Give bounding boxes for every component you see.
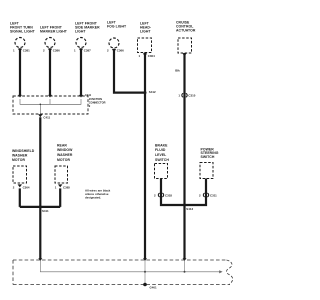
- pin 2 C364: [13, 184, 30, 189]
- wire: brake fluid level switch down and right to S413: [161, 179, 185, 206]
- svg-text:JUNCTION: JUNCTION: [89, 97, 102, 101]
- pin 1 C381: [13, 48, 30, 52]
- junction connector label: [85, 93, 106, 108]
- svg-text:S413: S413: [186, 207, 193, 211]
- svg-text:C386: C386: [53, 48, 60, 52]
- svg-text:REAR: REAR: [57, 143, 67, 147]
- svg-text:C366: C366: [117, 49, 124, 53]
- svg-text:ACTUATOR: ACTUATOR: [176, 28, 196, 32]
- connector circle C387 (left front side marker light): [76, 38, 86, 48]
- svg-text:LEVEL: LEVEL: [155, 153, 166, 157]
- svg-text:C311: C311: [210, 193, 217, 197]
- component box: windshield washer motor: [13, 166, 27, 183]
- body ground fork: headlight wire: [143, 258, 147, 261]
- junction dot: headlight ground at bus: [144, 271, 146, 273]
- pin fork: cruise control actuator: [182, 53, 186, 56]
- svg-text:S411: S411: [42, 209, 49, 213]
- body outline dashed top: [13, 259, 227, 261]
- pin 1 C365: [55, 184, 71, 189]
- wire: junction connector down to splice S411: [39, 117, 41, 258]
- junction dot: cruise ground at bus: [184, 271, 186, 273]
- note: all wires are black: [85, 188, 111, 199]
- label: left front marker light: [40, 25, 68, 33]
- svg-text:LIGHT: LIGHT: [75, 29, 86, 33]
- label: power steering switch: [201, 148, 219, 159]
- body outline dashed bottom: [13, 284, 230, 286]
- wire: turn signal light down to junction connector: [19, 48, 21, 96]
- wire: headlight down to ground bus: [144, 53, 146, 259]
- label: brake fluid level switch: [155, 143, 169, 161]
- svg-text:C387: C387: [84, 48, 91, 52]
- component box: left headlight: [138, 38, 152, 53]
- svg-text:C364: C364: [23, 186, 30, 190]
- label: windshield washer motor: [12, 149, 35, 162]
- svg-text:FLUID: FLUID: [155, 148, 166, 152]
- component box: brake fluid level switch: [155, 164, 168, 179]
- wire: cruise control actuator down: [183, 53, 185, 259]
- wire: fog light down and right to splice S412: [114, 49, 145, 93]
- wire: marker light down to junction connector: [49, 48, 51, 96]
- component box: cruise control actuator: [178, 38, 192, 53]
- svg-text:G401: G401: [150, 286, 157, 290]
- svg-text:BRAKE: BRAKE: [155, 143, 168, 147]
- junction connector C411 dashed box: [13, 96, 88, 114]
- pin 2 C386: [43, 48, 60, 52]
- label: rear window washer motor: [57, 143, 73, 161]
- component box: power steering switch: [200, 163, 213, 179]
- label: left front side marker light: [75, 21, 100, 33]
- body ground fork: cruise wire: [183, 258, 187, 261]
- svg-text:WINDOW: WINDOW: [57, 148, 73, 152]
- label: left headlight: [140, 21, 151, 33]
- svg-text:C310: C310: [188, 94, 195, 98]
- pin 1 C387: [74, 48, 91, 52]
- connector circle C386 (left front marker light): [45, 38, 55, 48]
- wire: rear window washer motor down to S411 bar: [59, 188, 61, 207]
- splice S412: [144, 91, 147, 94]
- svg-text:CONNECTOR: CONNECTOR: [89, 101, 106, 105]
- svg-text:C411: C411: [43, 116, 50, 120]
- splice S411: [39, 205, 42, 208]
- wire: power steering switch down and left to S413: [185, 179, 207, 206]
- svg-text:C318: C318: [165, 193, 172, 197]
- body ground fork: S411 wire: [38, 258, 42, 261]
- label: left front turn signal light: [10, 21, 36, 33]
- pin 1 C304: [139, 53, 156, 58]
- svg-text:MARKER LIGHT: MARKER LIGHT: [40, 29, 68, 33]
- connector circle C381 (left front turn signal light): [15, 38, 25, 48]
- splice S413: [183, 204, 186, 207]
- connector circle C366 (left fog light): [109, 38, 119, 48]
- svg-text:C381: C381: [23, 48, 30, 52]
- svg-text:FOG LIGHT: FOG LIGHT: [107, 25, 127, 29]
- label: left fog light: [107, 21, 127, 29]
- body outline dashed left: [12, 260, 14, 285]
- svg-text:WASHER: WASHER: [12, 154, 28, 158]
- svg-text:Blk: Blk: [175, 69, 180, 73]
- wire: side marker light down to junction connector: [80, 48, 82, 96]
- pin 2 C311: [199, 193, 217, 197]
- component box: rear window washer motor: [55, 166, 68, 183]
- label: cruise control actuator: [176, 20, 196, 32]
- junction connector internal bus: [20, 99, 81, 114]
- ground bus arrow: [219, 270, 222, 273]
- svg-text:C304: C304: [148, 54, 155, 58]
- wire: S411 junction bar: [20, 206, 60, 208]
- svg-text:S412: S412: [149, 90, 156, 94]
- wire: windshield washer motor down to S411 bar: [19, 188, 21, 207]
- body outline dashed right squiggle: [226, 260, 232, 285]
- pin 2 C318: [154, 193, 172, 197]
- svg-text:LIGHT: LIGHT: [140, 29, 151, 33]
- svg-text:SWITCH: SWITCH: [201, 155, 215, 159]
- ground path: headlight wire to G401: [144, 261, 146, 285]
- ground point G401: [143, 283, 147, 287]
- svg-text:C365: C365: [63, 186, 70, 190]
- inline connector 1 C310: [178, 93, 195, 97]
- svg-text:designated.: designated.: [85, 196, 101, 200]
- svg-text:SIGNAL LIGHT: SIGNAL LIGHT: [10, 29, 36, 33]
- junction connector pin forks: [18, 95, 22, 98]
- svg-text:WASHER: WASHER: [57, 153, 73, 157]
- svg-text:MOTOR: MOTOR: [12, 158, 25, 162]
- svg-text:MOTOR: MOTOR: [57, 158, 70, 162]
- svg-text:SWITCH: SWITCH: [155, 158, 169, 162]
- pin 2 C366: [107, 49, 124, 53]
- connector C411 exit fork and label: [38, 114, 42, 117]
- svg-text:C411: C411: [85, 93, 92, 97]
- svg-text:WINDSHIELD: WINDSHIELD: [12, 149, 35, 153]
- ground path: S411 wire to bus: [40, 261, 220, 272]
- ground path: cruise wire to bus: [184, 261, 186, 272]
